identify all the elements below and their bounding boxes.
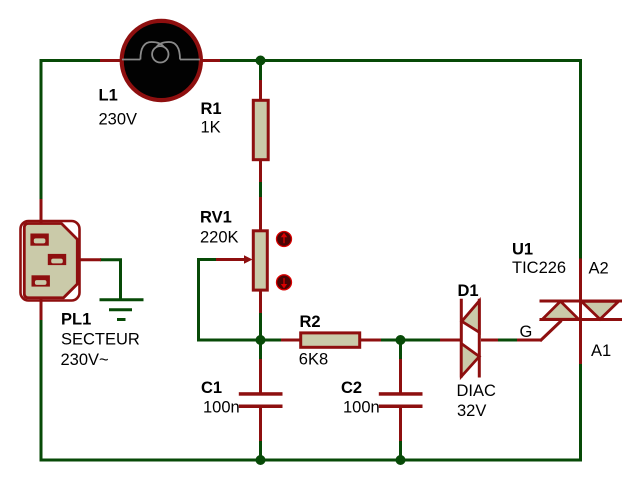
svg-text:RV1: RV1 bbox=[200, 209, 232, 227]
svg-text:C2: C2 bbox=[341, 379, 362, 397]
svg-text:32V: 32V bbox=[457, 402, 486, 420]
svg-text:L1: L1 bbox=[99, 87, 118, 105]
svg-text:D1: D1 bbox=[458, 282, 479, 300]
svg-text:PL1: PL1 bbox=[61, 311, 91, 329]
svg-text:100n: 100n bbox=[203, 399, 240, 417]
svg-text:100n: 100n bbox=[343, 399, 380, 417]
svg-text:A2: A2 bbox=[589, 260, 609, 278]
svg-text:A1: A1 bbox=[591, 342, 611, 360]
svg-text:DIAC: DIAC bbox=[457, 382, 497, 400]
svg-text:SECTEUR: SECTEUR bbox=[61, 331, 140, 349]
svg-text:230V: 230V bbox=[99, 111, 138, 129]
svg-text:6K8: 6K8 bbox=[299, 351, 328, 369]
svg-text:R2: R2 bbox=[300, 313, 321, 331]
svg-text:220K: 220K bbox=[200, 229, 239, 247]
svg-text:TIC226: TIC226 bbox=[512, 259, 566, 277]
svg-text:1K: 1K bbox=[201, 119, 221, 137]
svg-text:U1: U1 bbox=[512, 241, 533, 259]
svg-text:230V~: 230V~ bbox=[61, 351, 109, 369]
svg-text:C1: C1 bbox=[201, 379, 222, 397]
svg-text:R1: R1 bbox=[201, 100, 222, 118]
svg-text:G: G bbox=[520, 323, 533, 341]
